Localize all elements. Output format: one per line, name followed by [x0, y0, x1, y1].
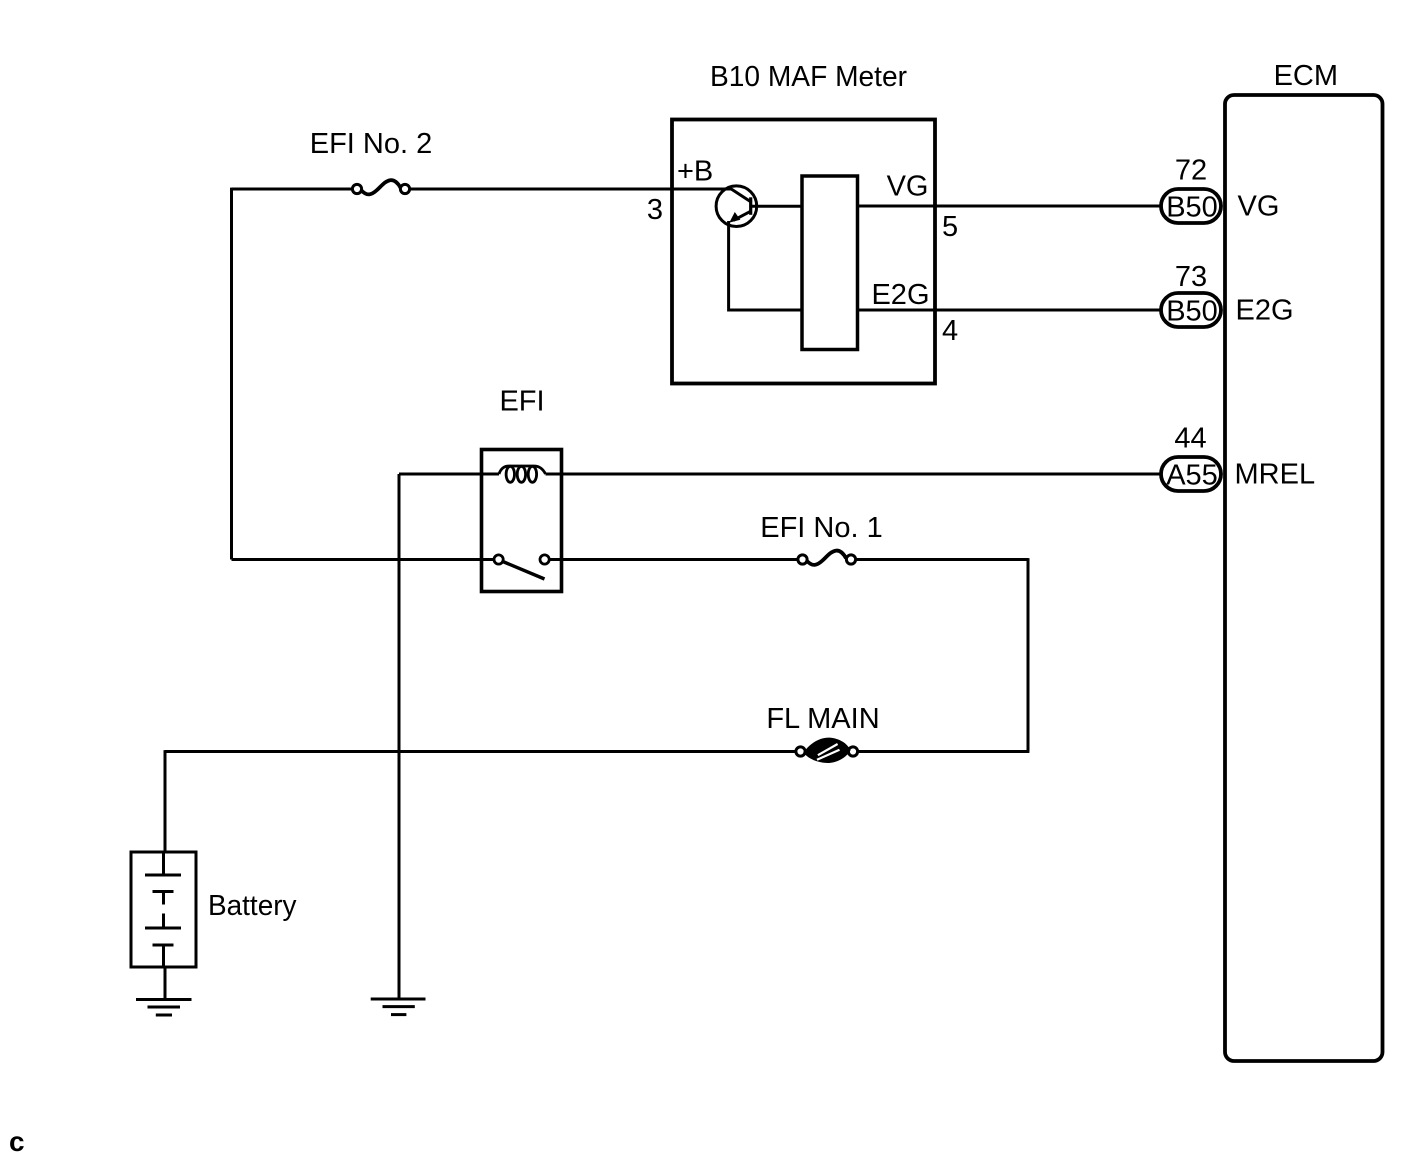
wire E2G from resistor to B50 connector [858, 309, 1162, 312]
svg-text:E2G: E2G [871, 279, 929, 311]
transistor emitter chord [730, 188, 752, 202]
wire switch row left [232, 558, 495, 561]
svg-text:72: 72 [1175, 155, 1207, 187]
resistor element (vertical rectangle) [802, 176, 858, 350]
battery plate short 2 [153, 944, 174, 947]
battery riser [164, 750, 167, 852]
svg-text:ECM: ECM [1274, 60, 1338, 92]
svg-text:5: 5 [942, 211, 958, 243]
svg-text:B50: B50 [1166, 192, 1218, 224]
battery to ground lead [164, 967, 167, 1000]
wire FL MAIN row from battery riser [165, 750, 796, 753]
wire transistor to resistor [751, 205, 802, 208]
relay coil wire from ground riser [399, 473, 499, 476]
wire transistor emitter down and right to resistor [729, 221, 802, 310]
svg-text:VG: VG [1238, 191, 1280, 223]
svg-text:FL MAIN: FL MAIN [766, 703, 879, 735]
ground riser from coil [398, 474, 401, 999]
fuse EFI No. 1 [798, 551, 856, 565]
fuse EFI No. 2 [352, 180, 409, 194]
battery internal bottom lead [162, 945, 165, 967]
svg-text:MREL: MREL [1235, 459, 1316, 491]
svg-text:B50: B50 [1166, 296, 1218, 328]
transistor base bar [749, 197, 752, 215]
battery dashed link [162, 892, 165, 929]
svg-text:A55: A55 [1166, 460, 1218, 492]
relay coil [499, 466, 546, 482]
relay switch contacts [494, 555, 503, 564]
svg-text:VG: VG [887, 171, 929, 203]
connector B50 pin 72 (VG) [1161, 189, 1221, 223]
svg-text:4: 4 [942, 315, 958, 347]
svg-text:Battery: Battery [208, 890, 297, 922]
wire from fuse to MAF box [410, 188, 673, 191]
svg-text:44: 44 [1174, 423, 1206, 455]
wire FL MAIN to right riser [858, 750, 1030, 753]
connector A55 pin 44 (MREL) [1161, 457, 1221, 491]
wire VG from resistor to B50 connector [858, 205, 1162, 208]
wire coil to A55 MREL [546, 473, 1162, 476]
wire vertical left from EFI No.2 down to switch row [230, 188, 233, 560]
battery plate long 2 [145, 927, 181, 930]
svg-text:3: 3 [647, 194, 663, 226]
B10 MAF Meter box [672, 120, 935, 384]
battery box [131, 852, 196, 967]
fusible link FL MAIN [796, 738, 858, 763]
svg-text:B10 MAF Meter: B10 MAF Meter [710, 61, 907, 93]
transistor Q circle inside MAF meter [716, 186, 757, 227]
svg-text:+B: +B [677, 156, 713, 188]
relay EFI box [482, 450, 562, 592]
right riser down to FL MAIN row [1027, 558, 1030, 751]
svg-text:c: c [9, 1126, 25, 1157]
transistor collector chord with arrow [734, 211, 752, 221]
battery internal top lead [162, 852, 165, 875]
svg-text:73: 73 [1175, 261, 1207, 293]
relay switch blade [503, 562, 545, 580]
wire fuse to right riser [856, 558, 1029, 561]
ECM box [1225, 95, 1383, 1061]
svg-text:EFI: EFI [499, 386, 544, 418]
svg-text:E2G: E2G [1236, 295, 1294, 327]
ground (battery) [136, 1000, 192, 1016]
wire +B inside MAF box [672, 188, 731, 191]
battery plate short 1 [153, 890, 174, 893]
connector B50 pin 73 (E2G) [1161, 293, 1221, 327]
wire from EFI No.2 fuse left [232, 188, 353, 191]
battery plate long 1 [145, 874, 181, 877]
ground (relay) [371, 999, 426, 1015]
svg-text:EFI No. 2: EFI No. 2 [310, 128, 433, 160]
svg-text:EFI No. 1: EFI No. 1 [760, 512, 883, 544]
wire switch to EFI No.1 fuse [550, 558, 799, 561]
